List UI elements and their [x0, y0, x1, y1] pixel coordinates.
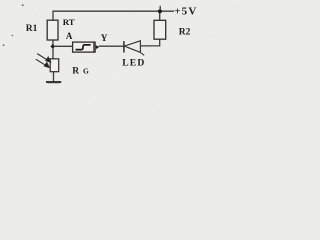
wire LED anode to R2 — [140, 39, 159, 46]
light arrow 2 — [36, 59, 49, 67]
wire RT bottom to node — [52, 40, 54, 59]
resistor R2 — [154, 20, 166, 39]
svg-text:R: R — [72, 67, 79, 77]
LED cathode bar — [123, 41, 125, 52]
junction up tick — [159, 6, 161, 10]
svg-text:A: A — [66, 31, 73, 41]
node junction A — [50, 44, 55, 49]
wire R2 top — [159, 11, 161, 20]
svg-text:RT: RT — [63, 17, 75, 27]
wire schmitt output to LED cathode — [99, 45, 124, 47]
ground — [46, 81, 61, 83]
svg-text:Y: Y — [101, 34, 108, 44]
speck 3 — [3, 44, 5, 46]
wire top rail — [53, 10, 175, 12]
speck 2 — [12, 35, 14, 37]
photoresistor RG — [50, 59, 59, 72]
light arrow 1 — [37, 54, 50, 63]
schmitt trigger U1 box — [73, 42, 96, 52]
output arrow — [96, 45, 99, 49]
wire node to schmitt input — [53, 45, 73, 47]
svg-text:+5V: +5V — [174, 5, 197, 17]
resistor RT — [47, 20, 58, 40]
wire RT top drop — [52, 11, 54, 20]
svg-text:G: G — [83, 67, 89, 76]
LED triangle — [124, 41, 140, 53]
svg-text:R1: R1 — [26, 24, 38, 34]
speck 1 — [22, 4, 24, 6]
hysteresis symbol — [76, 45, 91, 50]
wire RG bottom — [53, 72, 55, 82]
node +5V junction — [158, 9, 162, 13]
schmitt right edge double — [93, 42, 95, 52]
svg-text:R2: R2 — [179, 28, 191, 38]
svg-text:LED: LED — [122, 58, 145, 69]
paper speckle — [11, 6, 237, 109]
LED tick — [141, 53, 145, 56]
